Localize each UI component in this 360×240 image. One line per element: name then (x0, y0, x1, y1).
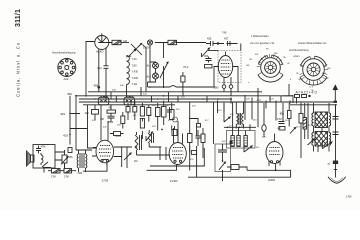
output transformer (77, 150, 87, 172)
junction dots (94, 86, 336, 148)
svg-text:Czeija, Nissl u. Co: Czeija, Nissl u. Co (16, 42, 21, 97)
mid right diode (224, 103, 230, 122)
svg-text:LW: LW (249, 59, 252, 61)
svg-text:7,80: 7,80 (132, 63, 138, 67)
wire 449 (70, 96, 80, 145)
svg-text:Anschlussbelegung: Anschlussbelegung (52, 51, 76, 55)
svg-text:7,430: 7,430 (132, 70, 139, 74)
rail nodes (75, 95, 291, 103)
earth wire (335, 105, 337, 178)
small component near PL2 (181, 76, 185, 82)
mid bottom choke 2 (148, 130, 154, 147)
wire to switch (121, 42, 129, 44)
power transformer (312, 103, 331, 152)
fuse blob (333, 161, 337, 170)
svg-text:120: 120 (85, 112, 90, 115)
magic eye tube AM2 (95, 33, 109, 49)
svg-text:MW: MW (325, 78, 329, 80)
svg-text:MW: MW (274, 53, 278, 55)
mains switch (322, 141, 332, 149)
cluster B x185-210 (188, 101, 206, 152)
rectifier tube V4 (243, 134, 291, 178)
svg-text:1.Wellenschalter: 1.Wellenschalter (251, 35, 269, 38)
svg-text:44M: 44M (78, 172, 83, 175)
more tiny node labels (92, 109, 312, 161)
svg-text:1706: 1706 (346, 196, 352, 199)
IF can 2 (124, 96, 135, 105)
tube V1 (96, 105, 114, 171)
dense cluster A (x150-178) (156, 101, 178, 136)
variable arrow (160, 62, 168, 78)
oval cap (262, 103, 266, 137)
svg-text:1,35V: 1,35V (143, 47, 150, 50)
tube V2 (147, 121, 187, 170)
wire x258 down (257, 102, 259, 127)
wire left mid (88, 105, 97, 148)
caps right column (333, 105, 339, 135)
svg-text:447: 447 (257, 98, 262, 102)
cap in box (36, 146, 41, 154)
tube V3 (214, 52, 238, 96)
svg-text:KW: KW (322, 73, 325, 75)
res hatched far right (303, 103, 307, 139)
svg-text:7,4Ω: 7,4Ω (132, 82, 138, 86)
svg-text:zweiter Wellenschalter von: zweiter Wellenschalter von (298, 42, 327, 45)
svg-text:453: 453 (204, 55, 209, 58)
trimmer line (163, 43, 165, 89)
svg-text:7,40: 7,40 (132, 57, 138, 61)
wheel 2 (300, 56, 327, 85)
oscillator coil L1 (127, 56, 130, 88)
small boxes top right (295, 95, 311, 98)
wire x141 (140, 87, 142, 96)
svg-text:KW: KW (255, 54, 258, 56)
svg-text:455: 455 (207, 37, 212, 41)
speaker (27, 151, 35, 166)
right column resistor (299, 103, 303, 148)
svg-text:449: 449 (60, 112, 65, 116)
svg-text:4500: 4500 (108, 122, 114, 124)
cap 47M right (279, 122, 286, 131)
switch near V4 (244, 144, 252, 152)
svg-text:a=ein: a=ein (294, 55, 301, 58)
svg-text:311/1: 311/1 (15, 9, 22, 27)
svg-text:419: 419 (63, 133, 68, 137)
svg-text:4M: 4M (134, 160, 137, 163)
resistor box left (92, 105, 99, 120)
switch arrow mid (146, 132, 153, 141)
switch arrow mid right (290, 128, 296, 134)
res 17k (288, 103, 292, 127)
wheel 2 labels (296, 68, 331, 92)
wheel 2 bottom ticks (310, 81, 318, 85)
wire top long (105, 42, 206, 44)
svg-text:1703: 1703 (102, 179, 109, 183)
tube socket A22 (58, 59, 76, 77)
svg-text:4M: 4M (109, 107, 112, 109)
svg-text:47M: 47M (277, 118, 282, 121)
node 458 (98, 86, 100, 88)
svg-text:A306: A306 (268, 178, 275, 182)
verticals mid right (218, 88, 259, 120)
small box on wire x70 (68, 148, 72, 153)
earth V big (328, 177, 346, 184)
wheel captions (250, 35, 327, 58)
capacitor 452 (104, 48, 109, 100)
small caps under rails left (107, 105, 116, 122)
short rail crossing leads (111, 92, 281, 105)
svg-text:AL4D: AL4D (96, 50, 104, 54)
band switch S1 (126, 44, 142, 58)
wire y128.5 (70, 128, 88, 130)
resistor small mid (110, 132, 124, 136)
svg-text:458: 458 (94, 83, 99, 87)
resistor R bottom 1 (48, 169, 64, 174)
main rails (148, 82, 216, 87)
svg-text:von vorn gesehen n.W.: von vorn gesehen n.W. (250, 42, 275, 45)
dial lamp on top wire (147, 40, 152, 45)
svg-text:A=AZ2+4/2: A=AZ2+4/2 (296, 90, 318, 94)
wheel 2 leader lines (300, 65, 329, 83)
svg-text:GW: GW (327, 68, 331, 70)
wires right block (290, 98, 297, 104)
svg-text:450: 450 (67, 92, 72, 96)
wire eye right (109, 42, 112, 44)
svg-text:47M: 47M (41, 146, 46, 149)
svg-text:457: 457 (224, 37, 229, 41)
svg-text:Anschlussrichtung: Anschlussrichtung (289, 49, 309, 52)
wires mid bottom (92, 147, 132, 167)
switch S2 diagonal (202, 48, 210, 57)
small box mid v2 left (191, 151, 196, 155)
IF can 1 (98, 96, 109, 105)
choke in box (41, 153, 43, 165)
wheel 1 (258, 55, 283, 82)
coil tap labels (132, 57, 139, 86)
resistor R top row (112, 40, 121, 44)
svg-text:GW: GW (246, 65, 250, 67)
svg-text:1V2R: 1V2R (170, 179, 178, 183)
cluster mid caps row (126, 101, 145, 140)
small resistor x121 (121, 112, 125, 129)
wheel 1 labels (246, 49, 292, 85)
switch in box (42, 162, 51, 168)
wheel 1 leader lines (257, 54, 284, 67)
top right corner wire (283, 84, 293, 96)
svg-text:AL2: AL2 (147, 65, 152, 68)
shield box tube V3 (218, 51, 241, 83)
resistor hatched right (236, 102, 243, 129)
trimmer arrow bottom mid (215, 144, 231, 181)
svg-text:AL4: AL4 (147, 76, 152, 79)
resistor R bottom 2 (64, 169, 76, 174)
switch right (308, 139, 315, 145)
svg-text:740: 740 (222, 31, 227, 35)
mid bottom choke 1 (135, 132, 142, 155)
box right (224, 102, 256, 148)
svg-text:PL2: PL2 (184, 65, 189, 69)
small resistor x147 (147, 105, 151, 122)
wire bottom left joins (55, 150, 92, 160)
svg-text:452: 452 (97, 66, 102, 70)
trimmer cap left (61, 150, 68, 169)
dial lamps pair (148, 45, 159, 82)
wire switch right leg down (143, 45, 147, 92)
coil down wire (126, 87, 128, 97)
svg-text:7,400: 7,400 (132, 76, 139, 80)
box left of V4 (227, 165, 243, 170)
svg-text:70mA: 70mA (115, 135, 122, 138)
pot arrow mid (124, 147, 131, 168)
title text Czeija Nissl u. Co 311/1 (15, 9, 22, 97)
tiny node labels (112, 85, 274, 122)
wire eye left down (86, 42, 95, 96)
resistor R2 top row (168, 40, 177, 44)
antenna arrow right top (333, 84, 338, 103)
svg-text:436: 436 (69, 156, 74, 159)
small caps above V3 (205, 57, 213, 68)
svg-text:LW: LW (320, 83, 323, 85)
bottom mid verticals (190, 102, 214, 177)
svg-text:UKW: UKW (298, 79, 303, 81)
svg-text:A22: A22 (64, 77, 69, 81)
wire x76 down (75, 95, 77, 150)
bottom long wires (83, 148, 204, 171)
wire eye bottom (98, 49, 100, 92)
svg-text:17M: 17M (51, 176, 56, 179)
svg-text:17M: 17M (64, 176, 69, 179)
series caps C455 C457 (206, 41, 238, 46)
speaker box (33, 145, 55, 169)
